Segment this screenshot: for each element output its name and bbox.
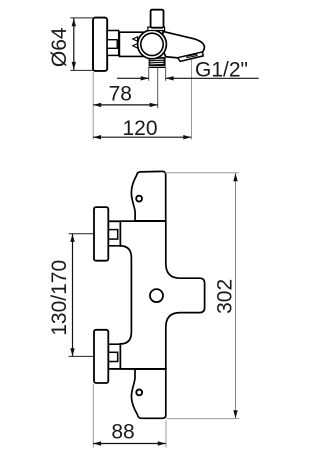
dimension 130/170 <box>48 234 93 357</box>
svg-text:G1/2": G1/2" <box>195 58 248 81</box>
extension line outlet right <box>165 66 167 80</box>
thermostat knob outer circle <box>138 30 167 59</box>
dimension 120 <box>93 117 191 140</box>
lower knob hub <box>108 344 120 369</box>
lower knob plate <box>94 330 108 383</box>
diverter knob <box>151 10 164 28</box>
upper knob plate <box>94 207 108 261</box>
lower hub groove <box>108 352 117 361</box>
lower wall union <box>131 369 165 418</box>
aerator slot <box>187 54 198 57</box>
extension line aerator centre <box>191 60 193 140</box>
shower outlet thread block (G1/2) <box>149 57 166 67</box>
dimension 78 <box>93 83 158 107</box>
body silhouette <box>120 221 204 369</box>
svg-text:Ø64: Ø64 <box>48 27 71 67</box>
svg-text:130/170: 130/170 <box>48 260 71 336</box>
svg-text:120: 120 <box>122 117 157 140</box>
thermostat knob inner circle <box>141 33 163 55</box>
knob grip tabs <box>133 37 138 48</box>
dimension 302 <box>165 173 239 419</box>
body left section <box>119 32 150 56</box>
dimension G1/2 leader with inward arrows <box>117 58 259 81</box>
lower junction line <box>108 368 166 370</box>
upper knob hub <box>108 221 120 245</box>
diverter knob base flange <box>148 27 165 30</box>
extension line from wall plane <box>92 72 94 140</box>
dimension 88 <box>93 384 166 447</box>
extension line outlet left <box>148 66 150 80</box>
extension line outlet centre <box>157 68 159 109</box>
upper wall union <box>131 171 165 221</box>
wall escutcheon flange (Ø64) <box>93 18 107 71</box>
centre hole <box>150 289 163 302</box>
upper hub groove <box>108 230 117 240</box>
svg-text:78: 78 <box>109 83 132 106</box>
spout <box>162 31 204 58</box>
dimension Ø64 <box>48 18 93 71</box>
upper union screw <box>136 196 142 202</box>
svg-text:302: 302 <box>213 279 236 314</box>
connection neck <box>107 31 119 56</box>
neck groove <box>107 40 117 49</box>
lower union screw <box>136 390 142 396</box>
upper junction line <box>108 220 166 222</box>
svg-text:88: 88 <box>111 421 134 444</box>
aerator on spout tip <box>178 52 204 62</box>
